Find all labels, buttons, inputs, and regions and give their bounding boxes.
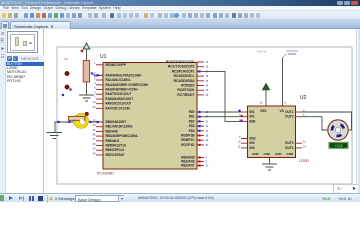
- svg-text:RC7/RX/DT: RC7/RX/DT: [177, 93, 194, 97]
- svg-text:7: 7: [94, 96, 96, 99]
- svg-text:EN2: EN2: [250, 137, 256, 141]
- svg-text:RA6/OSC2/CLKOUT: RA6/OSC2/CLKOUT: [106, 102, 132, 106]
- svg-text:27: 27: [206, 130, 209, 133]
- battery U3(VS): [257, 50, 299, 58]
- svg-text:35: 35: [93, 129, 96, 132]
- svg-text:19: 19: [206, 111, 209, 114]
- U1 left pins: [93, 62, 149, 157]
- node RB0 state: [97, 121, 99, 123]
- svg-text:2: 2: [94, 73, 96, 76]
- svg-text:RC4/SDI/SDA: RC4/SDI/SDA: [174, 79, 196, 83]
- svg-text:23: 23: [206, 80, 209, 83]
- svg-text:GND: GND: [264, 152, 272, 156]
- U1 right pins: [166, 60, 209, 168]
- wire VS battery: [282, 58, 284, 107]
- svg-text:RA5/AN4/SS/C2OUT: RA5/AN4/SS/C2OUT: [106, 97, 134, 101]
- svg-text:RB0/AN12/INT: RB0/AN12/INT: [106, 120, 127, 124]
- svg-text:38: 38: [93, 143, 96, 146]
- svg-text:RB7/ICSPDAT: RB7/ICSPDAT: [106, 153, 125, 157]
- ground (button): [47, 133, 63, 139]
- svg-text:VS: VS: [280, 109, 284, 113]
- svg-text:RD5/P1B: RD5/P1B: [181, 134, 195, 138]
- svg-text:GND: GND: [287, 152, 295, 156]
- svg-text:37: 37: [93, 138, 96, 141]
- svg-text:RD1: RD1: [189, 115, 195, 119]
- svg-text:13: 13: [93, 106, 96, 109]
- svg-text:15: 15: [206, 61, 209, 64]
- svg-text:U3(VS): U3(VS): [257, 50, 267, 54]
- svg-text:RD4: RD4: [189, 129, 195, 133]
- svg-text:22: 22: [206, 125, 209, 128]
- svg-text:+132: +132: [334, 144, 342, 148]
- svg-text:OUT4: OUT4: [285, 146, 294, 150]
- svg-text:IN4: IN4: [250, 146, 255, 150]
- svg-text:RB3/AN9/PGM/C12IN2-: RB3/AN9/PGM/C12IN2-: [106, 134, 139, 138]
- svg-text:4: 4: [94, 82, 96, 85]
- driver U2 L293D: [248, 106, 296, 158]
- svg-text:10: 10: [206, 165, 209, 168]
- node EN1 state: [240, 120, 242, 122]
- wire RD0 to IN1: [204, 111, 241, 113]
- svg-text:8: 8: [285, 101, 287, 104]
- button (push button, clicked hand cursor): [68, 112, 91, 128]
- svg-text:26: 26: [206, 94, 209, 97]
- svg-text:OUT1: OUT1: [285, 110, 294, 114]
- svg-text:RA1/AN1/C12IN1-: RA1/AN1/C12IN1-: [106, 78, 132, 82]
- svg-text:RE3/MCLR/VPP: RE3/MCLR/VPP: [106, 63, 127, 67]
- svg-text:8: 8: [206, 157, 208, 160]
- svg-text:9: 9: [206, 161, 208, 164]
- svg-text:10: 10: [238, 141, 241, 144]
- svg-text:16: 16: [206, 66, 209, 69]
- svg-text:3: 3: [94, 77, 96, 80]
- svg-text:11: 11: [303, 141, 306, 144]
- svg-text:RD7/P1D: RD7/P1D: [181, 143, 195, 147]
- svg-text:RC3/SCK/SCL: RC3/SCK/SCL: [174, 74, 195, 78]
- svg-text:14: 14: [93, 101, 96, 104]
- ground (pot): [79, 95, 94, 101]
- svg-text:+5v: +5v: [64, 57, 69, 61]
- svg-text:RC0/T1OSO/T1CKI: RC0/T1OSO/T1CKI: [166, 60, 195, 64]
- svg-text:RD6/P1C: RD6/P1C: [181, 138, 195, 142]
- motor rpm display: [329, 142, 349, 149]
- svg-text:14: 14: [303, 145, 306, 148]
- node pot bottom squares: [69, 88, 71, 90]
- svg-text:GND: GND: [275, 152, 283, 156]
- svg-text:40: 40: [93, 152, 96, 155]
- svg-text:16: 16: [260, 101, 263, 104]
- svg-text:RA7/OSC1/CLKIN: RA7/OSC1/CLKIN: [106, 106, 131, 110]
- svg-text:L293D: L293D: [299, 159, 310, 163]
- svg-text:IN3: IN3: [250, 141, 255, 145]
- svg-text:U1: U1: [100, 54, 107, 60]
- svg-text:9: 9: [239, 136, 241, 139]
- svg-text:RD3: RD3: [189, 124, 195, 128]
- svg-text:24: 24: [206, 85, 209, 88]
- wire RD1 to IN2: [204, 116, 241, 118]
- svg-text:VSS: VSS: [260, 109, 266, 113]
- svg-text:RB1/AN10/C12IN3-: RB1/AN10/C12IN3-: [106, 125, 134, 129]
- svg-text:GND: GND: [252, 152, 260, 156]
- wire pot wiper to RA0: [94, 75, 97, 77]
- wire OUT1 to motor: [302, 112, 352, 130]
- svg-text:RC2/P1A/CCP1: RC2/P1A/CCP1: [172, 69, 195, 73]
- ground (U2): [262, 164, 277, 170]
- svg-text:34: 34: [93, 124, 96, 127]
- wire button to RB0: [55, 122, 103, 133]
- wire pot to ground: [86, 82, 88, 95]
- svg-text:RA2/AN2/VREF-/CVREF/C2IN+: RA2/AN2/VREF-/CVREF/C2IN+: [106, 83, 149, 87]
- svg-text:RE2/AN7: RE2/AN7: [181, 164, 195, 168]
- svg-text:RA3/AN3/VREF+/C1IN+: RA3/AN3/VREF+/C1IN+: [106, 88, 139, 92]
- svg-text:29: 29: [206, 139, 209, 142]
- svg-text:RB5/AN13/T1G: RB5/AN13/T1G: [106, 144, 127, 148]
- node RA0 state: [97, 74, 99, 76]
- svg-text:EN1: EN1: [250, 119, 256, 123]
- svg-text:RB6/ICSPCLK: RB6/ICSPCLK: [106, 148, 126, 152]
- svg-text:RA4/T0CKI/C1OUT: RA4/T0CKI/C1OUT: [106, 92, 132, 96]
- svg-text:30: 30: [206, 144, 209, 147]
- svg-text:18: 18: [206, 75, 209, 78]
- sheet border: [57, 47, 352, 184]
- svg-text:25: 25: [206, 89, 209, 92]
- svg-text:28: 28: [206, 135, 209, 138]
- svg-text:RA0/AN0/ULPWU/C12IN0-: RA0/AN0/ULPWU/C12IN0-: [106, 73, 142, 77]
- svg-text:IN1: IN1: [250, 110, 255, 114]
- microcontroller U1 PIC16F887: [103, 63, 197, 170]
- svg-text:1: 1: [94, 62, 96, 65]
- svg-text:RB4/AN11: RB4/AN11: [106, 139, 120, 143]
- svg-text:39: 39: [93, 148, 96, 151]
- wire OUT2 to motor: [302, 117, 327, 130]
- power VSS arrow: [262, 84, 269, 107]
- svg-text:17: 17: [206, 70, 209, 73]
- svg-text:PIC16F887: PIC16F887: [97, 172, 114, 176]
- svg-text:15: 15: [238, 145, 241, 148]
- svg-text:RD2: RD2: [189, 119, 195, 123]
- svg-text:36: 36: [93, 134, 96, 137]
- wire RC2 to EN1: [204, 71, 241, 121]
- node IN1 state: [238, 110, 240, 112]
- potentiometer RV1: [64, 57, 97, 89]
- svg-text:OUT2: OUT2: [285, 115, 294, 119]
- svg-text:6: 6: [94, 92, 96, 95]
- svg-text:21: 21: [206, 120, 209, 123]
- svg-text:RB2/AN8: RB2/AN8: [106, 129, 118, 133]
- svg-text:5: 5: [94, 87, 96, 90]
- U2 pins: [238, 101, 307, 155]
- node RB0 squares: [57, 121, 59, 123]
- wire U2 ground: [269, 158, 271, 165]
- svg-text:RC6/TX/CK: RC6/TX/CK: [177, 88, 195, 92]
- motor M1 MOTOR-DC: [328, 120, 348, 140]
- node IN2 state: [240, 115, 242, 117]
- svg-text:RC5/SDO: RC5/SDO: [181, 84, 195, 88]
- svg-text:U2: U2: [300, 95, 307, 101]
- svg-text:OUT3: OUT3: [285, 141, 294, 145]
- svg-text:IN2: IN2: [250, 115, 255, 119]
- svg-text:20: 20: [206, 116, 209, 119]
- svg-text:RC1/T1OSI/CCP2: RC1/T1OSI/CCP2: [168, 65, 195, 69]
- svg-text:RD0: RD0: [189, 110, 195, 114]
- power +5V: [81, 43, 90, 60]
